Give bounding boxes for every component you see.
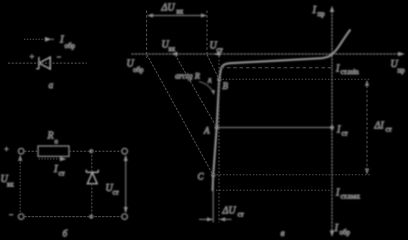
svg-text:обр: обр	[65, 42, 76, 50]
svg-text:обр: обр	[133, 66, 144, 74]
I_st.min dashed level line	[221, 67, 332, 69]
svg-text:А: А	[203, 126, 210, 136]
dU_vx dimension arrow (shaft)	[148, 15, 206, 17]
zener diode VD (shunt): cathode bar with hooks + triangle	[86, 170, 98, 184]
svg-text:I: I	[334, 223, 339, 234]
leader arc arrow head	[211, 90, 215, 95]
svg-text:arctg R: arctg R	[175, 71, 201, 81]
load line for U_vx min (to point B)	[207, 55, 219, 80]
U_st arrow head up	[124, 155, 128, 161]
wire: resistor to output terminal through node (circuit b)	[69, 150, 122, 152]
dU_st left arrow head	[207, 217, 213, 221]
U_st arrow head down	[124, 207, 128, 213]
drop line from point C (solid)	[212, 176, 214, 223]
svg-text:вх: вх	[169, 45, 176, 53]
point B	[217, 78, 221, 82]
zener diode VD symbol (cathode bar with hook + triangle)	[36, 56, 50, 69]
resistor R_o (ballast) body	[38, 146, 69, 156]
U axis (horizontal)	[131, 53, 400, 55]
plus polarity sign	[30, 54, 35, 59]
output terminal top-right	[122, 148, 128, 154]
svg-text:ст.max: ст.max	[341, 193, 361, 201]
svg-text:ΔU: ΔU	[222, 206, 237, 217]
U_vx marker arrow head on U axis	[171, 52, 177, 57]
leader arc to slope angle	[199, 82, 213, 93]
crisp dashed/dotted construction lines	[8, 11, 371, 223]
minus polarity sign	[57, 56, 61, 58]
svg-text:о: о	[55, 138, 59, 146]
zener I-V characteristic curve (forward branch, reverse branch, breakdown)	[213, 30, 351, 192]
U_st marker arrow head on U axis	[214, 52, 220, 57]
node on I axis for I_st	[330, 126, 334, 130]
svg-text:ΔI: ΔI	[374, 121, 385, 132]
dotted level line through point C	[213, 174, 370, 176]
svg-text:ст.min: ст.min	[341, 68, 360, 76]
svg-text:обр: обр	[340, 229, 351, 237]
svg-text:а: а	[49, 81, 54, 91]
point A	[215, 126, 219, 130]
tail segment of reverse-current arrow I_obr	[51, 38, 54, 40]
I axis bottom arrow head	[330, 231, 334, 238]
dI_st arrow head down	[365, 169, 369, 175]
svg-text:I: I	[335, 188, 340, 199]
I_st level line (solid, through point A)	[217, 127, 332, 129]
svg-text:пр: пр	[398, 67, 406, 75]
input terminal bottom-left	[18, 214, 24, 220]
svg-text:ст: ст	[59, 170, 65, 178]
svg-text:ст: ст	[113, 189, 119, 197]
svg-text:ст: ст	[386, 126, 392, 134]
arrow head of current arrow I_st	[60, 157, 66, 161]
wire: zener down to bottom node	[91, 184, 93, 217]
svg-text:С: С	[198, 172, 205, 182]
node junction top (diode tap)	[89, 149, 93, 153]
svg-text:I: I	[53, 164, 58, 175]
dU_st right arrow head	[220, 217, 226, 221]
arrow head of reverse-current arrow I_obr	[45, 37, 52, 42]
dU_st right dimension arrow (shaft)	[220, 218, 232, 220]
input voltage arrow U_vx shaft (dotted)	[19, 156, 21, 213]
svg-text:ст: ст	[238, 211, 244, 219]
dotted shaft of current arrow I_st	[39, 158, 61, 160]
svg-text:I: I	[336, 125, 341, 136]
output voltage arrow U_st (shaft)	[125, 156, 127, 212]
dU_vx left arrow head	[147, 14, 153, 18]
I_st.max dotted level line	[213, 189, 332, 191]
wire: bottom rail	[24, 216, 122, 218]
svg-text:ΔU: ΔU	[161, 3, 176, 14]
svg-text:I: I	[312, 5, 317, 16]
dU_vx right arrow head	[201, 14, 207, 18]
minus input sign	[9, 214, 13, 216]
arrow head of input voltage arrow U_vx	[18, 155, 22, 161]
svg-text:пр: пр	[318, 10, 326, 18]
dU_vx bracket: right dashed vertical	[206, 11, 208, 55]
dU_st left dimension arrow (shaft)	[199, 218, 213, 220]
dI_st vertical dashed arrow shaft	[366, 81, 368, 174]
svg-text:вх: вх	[7, 181, 14, 189]
input terminal top-left	[18, 148, 24, 154]
dI_st arrow head up	[365, 80, 369, 86]
dotted shaft of reverse-current arrow I_obr (circuit a)	[24, 38, 45, 40]
svg-text:R: R	[47, 131, 54, 142]
point C	[211, 173, 215, 177]
load line for U_vx max (to point C)	[147, 55, 213, 176]
svg-text:ст: ст	[342, 130, 348, 138]
wire through zener diode (circuit a)	[8, 62, 87, 64]
U_st dotted drop line (axis to dU_st arrow)	[218, 56, 220, 223]
dotted level line through point B	[219, 78, 370, 80]
load line for nominal U_vx (to point A)	[175, 55, 217, 128]
svg-text:вх: вх	[177, 8, 184, 16]
wire: top node down to zener	[91, 151, 93, 172]
wire: input terminal to resistor (circuit b)	[24, 150, 38, 152]
I axis top arrow head	[330, 6, 334, 12]
svg-text:В: В	[223, 81, 229, 91]
dU_vx bracket: left dashed vertical	[146, 11, 148, 59]
svg-text:в: в	[281, 229, 285, 238]
plus input sign	[4, 147, 8, 151]
svg-text:I: I	[335, 64, 340, 75]
I axis (vertical)	[331, 11, 333, 234]
output terminal bottom-right	[122, 214, 128, 220]
U axis right arrow head	[398, 52, 405, 56]
svg-text:ст: ст	[217, 46, 223, 54]
node junction bottom	[89, 215, 93, 219]
